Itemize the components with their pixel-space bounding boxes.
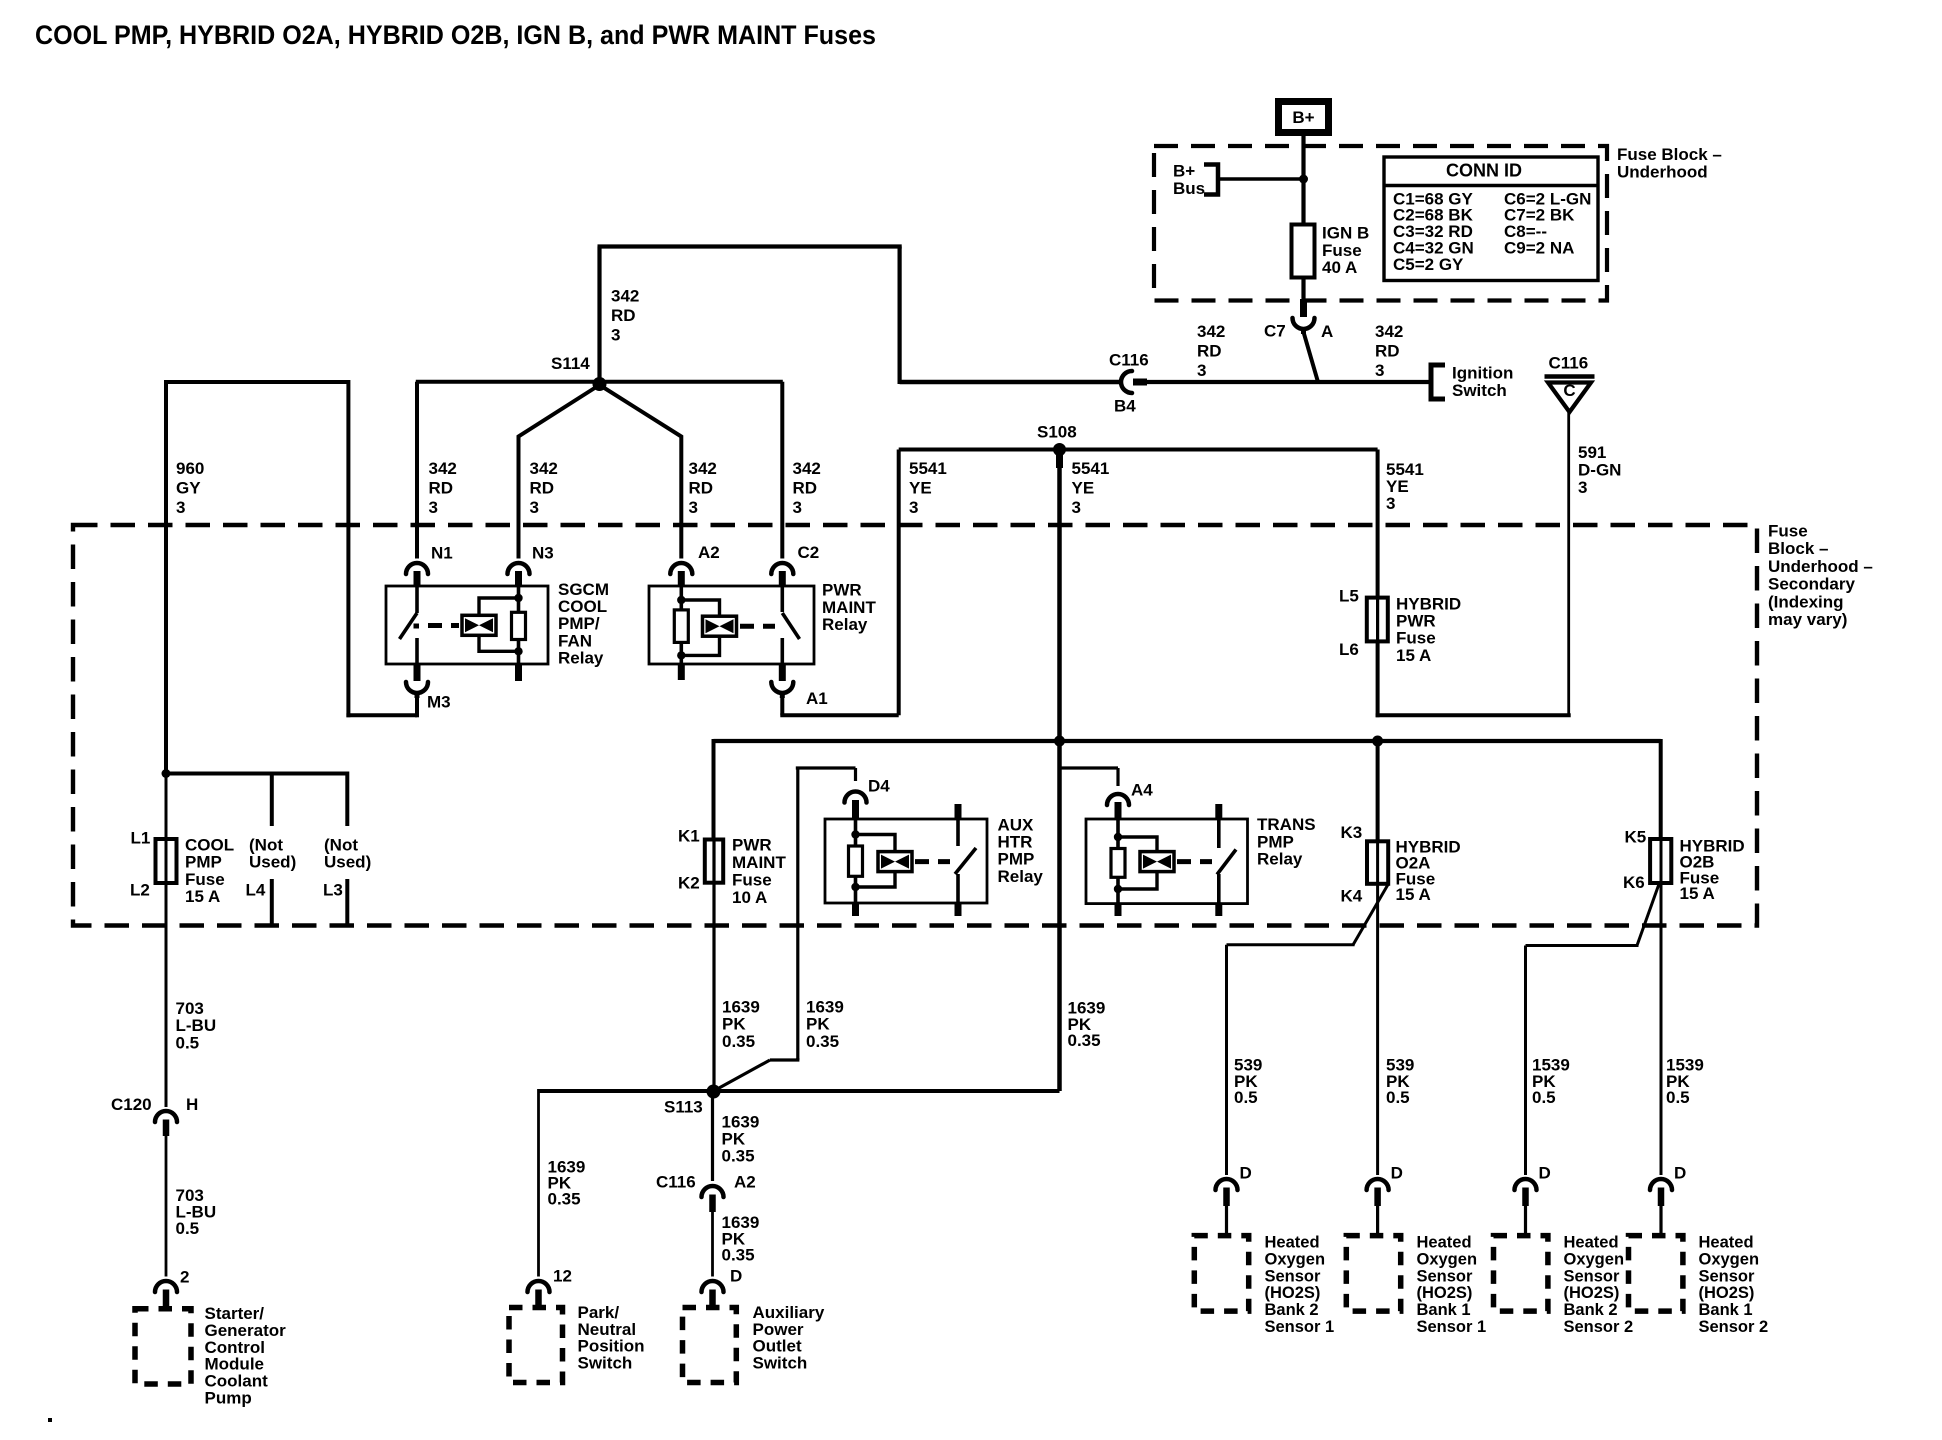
svg-text:PWR: PWR [822,581,862,600]
svg-text:Ignition: Ignition [1452,364,1513,383]
fuse IGN B (40 A) [1292,225,1315,278]
SGCM coil bracket [479,598,519,615]
TRANS stub below coil [1115,904,1122,916]
svg-text:3: 3 [1386,494,1395,513]
svg-text:C116: C116 [1549,354,1589,373]
svg-text:PWR: PWR [732,836,772,855]
connector N1 [406,563,428,574]
relay TRANS PMP box [1086,819,1248,904]
svg-text:Underhood: Underhood [1617,163,1708,182]
svg-text:L4: L4 [246,881,266,900]
svg-text:B+: B+ [1173,162,1195,181]
PWR MAINT coil [703,616,737,636]
ignition switch terminal bracket [1431,365,1445,399]
svg-text:0.35: 0.35 [806,1032,839,1051]
svg-text:K6: K6 [1623,873,1645,892]
PWR MAINT stub below coil [678,664,685,680]
wire S114 to A2 [602,387,681,559]
svg-text:Sensor 2: Sensor 2 [1699,1318,1769,1336]
wire K4 to HO2S B1S1 [1376,884,1379,1175]
AUX stub below coil [852,903,859,916]
svg-text:K5: K5 [1625,828,1647,847]
svg-text:D4: D4 [868,777,890,796]
svg-text:Sensor 1: Sensor 1 [1265,1318,1335,1336]
svg-text:0.5: 0.5 [1386,1088,1410,1107]
svg-text:(Not: (Not [324,836,358,855]
wire S113 to C116 A2 [711,1091,714,1181]
svg-text:TRANS: TRANS [1257,815,1316,834]
node AUX coil bottom [851,883,859,891]
wire COOL PMP fuse to C120 [165,883,168,1107]
svg-text:Bus: Bus [1173,179,1205,198]
node B+ bus junction [1299,175,1308,184]
wire not-used L4 stub upper [270,774,274,827]
svg-text:15 A: 15 A [1680,884,1715,903]
svg-text:0.5: 0.5 [1234,1088,1258,1107]
TRANS switch contact [1217,819,1221,848]
wire bus to K5 fuse [1659,739,1663,839]
svg-text:0.5: 0.5 [1532,1088,1556,1107]
connector HO2S D (Bank 1 Sensor 1) [1367,1179,1389,1190]
svg-text:H: H [186,1095,198,1114]
svg-text:3: 3 [1578,478,1587,497]
svg-text:(Not: (Not [249,836,283,855]
svg-text:3: 3 [429,498,438,517]
svg-text:15 A: 15 A [1396,885,1431,904]
TRANS coil [1140,852,1174,872]
connector A1 [779,664,786,681]
svg-text:0.35: 0.35 [548,1190,581,1209]
SGCM mech link dashes [414,624,420,629]
wire 5541 YE to A1 branch [897,450,901,716]
node AUX coil top [851,830,859,838]
svg-text:342: 342 [1375,322,1403,341]
svg-text:0.35: 0.35 [722,1032,755,1051]
connector C116 pin B4 [900,380,1120,385]
node TRANS coil top [1114,833,1122,841]
svg-text:Sensor: Sensor [1699,1267,1756,1285]
svg-text:342: 342 [793,459,821,478]
splice S113 [707,1085,721,1099]
wire S114 to C116 B4 [597,247,601,385]
connector A4 [1107,794,1129,805]
svg-text:A2: A2 [698,543,720,562]
wire S114 to C2 [780,382,784,559]
AUX coil [878,852,912,872]
connector pump pin 2 [155,1281,177,1292]
svg-text:5541: 5541 [1072,459,1110,478]
wire not-used header [164,772,347,776]
svg-text:CONN ID: CONN ID [1446,161,1522,181]
TRANS stub below switch [1215,904,1222,916]
svg-text:3: 3 [689,498,698,517]
svg-text:3: 3 [909,498,918,517]
wire K6 to HO2S B1S2 [1660,883,1663,1175]
svg-text:PK: PK [722,1015,746,1034]
connector HO2S D (Bank 2 Sensor 1) [1216,1179,1238,1190]
wire fuse feed bus [714,739,1661,743]
svg-text:Fuse: Fuse [1768,522,1808,541]
svg-text:L3: L3 [323,881,343,900]
wire B+ to IGN B fuse [1301,133,1305,225]
B+ bus bracket [1204,165,1218,195]
svg-text:A: A [1321,322,1333,341]
AUX mech link dashes [915,859,950,864]
svg-text:RD: RD [689,479,714,498]
connector outlet pin D [702,1281,724,1292]
node PWR MAINT coil top [677,596,685,604]
svg-text:Switch: Switch [1452,381,1507,400]
svg-text:Relay: Relay [998,867,1044,886]
svg-text:5541: 5541 [909,459,947,478]
svg-text:RD: RD [611,306,636,325]
svg-text:L5: L5 [1339,587,1359,606]
svg-text:COOL: COOL [185,836,234,855]
fuse block underhood dashed box [1154,146,1607,301]
svg-text:Bank 2: Bank 2 [1265,1301,1319,1319]
SGCM coil resistor [517,586,521,612]
SGCM coil [462,615,496,635]
svg-text:342: 342 [429,459,457,478]
connector C116 triangle C [1545,374,1595,379]
AUX coil resistor [854,819,858,846]
AUX switch stub above [955,804,962,820]
svg-text:D: D [1391,1164,1403,1183]
svg-text:Oxygen: Oxygen [1417,1250,1478,1268]
svg-text:Sensor 1: Sensor 1 [1417,1318,1487,1336]
svg-text:10 A: 10 A [732,888,767,907]
svg-text:Heated: Heated [1265,1234,1320,1252]
svg-text:D: D [730,1267,742,1286]
svg-text:B+: B+ [1292,108,1314,127]
svg-text:(HO2S): (HO2S) [1265,1284,1321,1302]
connector C7 pin A [1300,299,1307,317]
TRANS mech link dashes [1177,859,1212,864]
relay PWR MAINT box [649,586,814,664]
relay SGCM COOL PMP/FAN box [386,586,548,664]
fuse PWR MAINT (10 A) [712,841,715,883]
svg-text:12: 12 [553,1267,572,1286]
svg-text:S114: S114 [551,354,590,373]
relay AUX HTR PMP box [825,819,987,903]
svg-text:591: 591 [1578,443,1606,462]
svg-text:L2: L2 [130,881,150,900]
starter generator control module coolant pump box [135,1309,191,1384]
svg-text:0.35: 0.35 [722,1147,755,1166]
svg-text:D: D [1539,1164,1551,1183]
svg-text:PMP: PMP [185,853,222,872]
svg-text:L-BU: L-BU [176,1016,217,1035]
wire not-used L3 stub lower [345,879,349,925]
fuse HYBRID O2A (15 A) [1376,841,1379,884]
TRANS coil bracket [1118,837,1157,851]
svg-text:L1: L1 [131,829,151,848]
wire S113 to park switch [537,1089,540,1277]
connector park pin 12 [528,1281,550,1292]
svg-text:Sensor 2: Sensor 2 [1564,1318,1634,1336]
svg-text:YE: YE [909,479,932,498]
stray mark bottom left [48,1418,52,1422]
svg-text:K1: K1 [678,827,700,846]
svg-text:N3: N3 [532,544,554,563]
SGCM pin stub below N3 [515,664,522,681]
svg-text:S108: S108 [1037,423,1077,442]
connector C120 pin H [155,1111,177,1122]
battery B+ terminal box [1279,102,1329,133]
wire M3 return [346,380,350,717]
svg-text:3: 3 [530,498,539,517]
svg-text:3: 3 [793,498,802,517]
splice S114 [593,377,607,391]
svg-text:A1: A1 [806,689,828,708]
svg-text:Heated: Heated [1564,1234,1619,1252]
svg-text:L6: L6 [1339,640,1359,659]
svg-text:D: D [1674,1164,1686,1183]
svg-text:Used): Used) [324,853,371,872]
svg-text:RD: RD [1197,342,1222,361]
PWR MAINT coil bracket [681,600,719,616]
wire S113 horizontal [538,1089,1060,1093]
svg-text:703: 703 [176,999,204,1018]
svg-text:342: 342 [530,459,558,478]
wire K4 slant branch [1353,885,1388,945]
svg-text:C2: C2 [798,543,820,562]
heated oxygen sensor box (Bank 1 Sensor 1) [1346,1236,1400,1312]
wire S114 horizontal [416,380,783,384]
wire not-used L3 stub upper [345,772,349,827]
svg-text:C120: C120 [111,1095,152,1114]
heated oxygen sensor box (Bank 2 Sensor 2) [1494,1236,1548,1312]
svg-text:342: 342 [611,287,639,306]
svg-text:Relay: Relay [822,615,868,634]
fuse HYBRID PWR (15 A) [1376,598,1379,641]
svg-text:(HO2S): (HO2S) [1699,1284,1755,1302]
svg-text:2: 2 [180,1268,189,1287]
wire not-used L4 stub lower [270,879,274,925]
svg-text:PMP: PMP [1257,832,1294,851]
svg-text:C116: C116 [1109,351,1149,370]
svg-text:3: 3 [1375,361,1384,380]
wire 5541 YE to HYBRID PWR fuse [1376,450,1380,598]
heated oxygen sensor box (Bank 1 Sensor 2) [1629,1236,1683,1312]
CONN ID table box [1384,157,1598,281]
connector HO2S D (Bank 1 Sensor 2) [1650,1179,1672,1190]
svg-text:Sensor: Sensor [1265,1267,1322,1285]
heated oxygen sensor box (Bank 2 Sensor 1) [1194,1236,1248,1312]
svg-text:YE: YE [1072,479,1095,498]
svg-text:Fuse: Fuse [1322,241,1362,260]
svg-text:C116: C116 [656,1173,696,1192]
svg-text:Bank 2: Bank 2 [1564,1301,1618,1319]
wire S114 to N3 [519,387,598,559]
wire IGN B fuse to C7 [1301,278,1305,303]
svg-text:3: 3 [1072,498,1081,517]
connector C2 [771,563,793,574]
svg-text:40 A: 40 A [1322,258,1357,277]
svg-text:C7: C7 [1264,322,1286,341]
svg-text:S113: S113 [664,1098,703,1117]
svg-text:0.35: 0.35 [1068,1031,1101,1050]
wire D4 feed [796,768,799,1060]
svg-text:1639: 1639 [806,998,844,1017]
svg-text:K3: K3 [1341,823,1363,842]
wire K6 slant branch [1637,884,1659,946]
svg-text:Sensor: Sensor [1564,1267,1621,1285]
node PWR MAINT coil bottom [677,651,685,659]
wire 591 D-GN [1567,411,1570,717]
AUX stub below switch [955,903,962,916]
wire PWR MAINT fuse to S113 [712,883,715,1091]
auxiliary power outlet switch box [683,1308,737,1383]
fuse block underhood secondary dashed box [73,525,1757,926]
svg-text:Switch: Switch [578,1353,633,1372]
svg-text:may vary): may vary) [1768,610,1847,629]
node bus S108 junction [1054,736,1065,747]
svg-text:Used): Used) [249,853,296,872]
svg-text:IGN B: IGN B [1322,224,1369,243]
svg-text:Bank 1: Bank 1 [1699,1301,1753,1319]
wire S108 feed down [1057,450,1062,1092]
svg-text:Heated: Heated [1699,1234,1754,1252]
svg-text:RD: RD [793,479,818,498]
svg-text:RD: RD [1375,342,1400,361]
wire 960 GY [166,380,348,384]
svg-text:1639: 1639 [722,998,760,1017]
node COOL PMP junction [162,769,171,778]
svg-text:Oxygen: Oxygen [1265,1250,1326,1268]
svg-text:Oxygen: Oxygen [1564,1250,1625,1268]
svg-text:C5=2 GY: C5=2 GY [1393,255,1464,274]
PWR MAINT switch contact [780,586,784,612]
svg-text:Sensor: Sensor [1417,1267,1474,1285]
TRANS coil resistor [1116,819,1120,849]
svg-text:(Indexing: (Indexing [1768,592,1844,611]
wire C116 A2 to outlet [711,1212,714,1277]
svg-text:15 A: 15 A [1396,646,1431,665]
svg-text:0.5: 0.5 [1666,1088,1690,1107]
svg-text:D: D [1240,1164,1252,1183]
svg-text:Underhood –: Underhood – [1768,557,1873,576]
svg-text:D-GN: D-GN [1578,460,1621,479]
connector C116 pin A2 [702,1186,724,1197]
svg-text:0.5: 0.5 [176,1219,200,1238]
svg-text:MAINT: MAINT [732,853,786,872]
node SGCM coil top [514,594,522,602]
svg-text:C9=2 NA: C9=2 NA [1504,239,1574,258]
svg-text:A2: A2 [734,1173,756,1192]
svg-text:Block –: Block – [1768,539,1828,558]
svg-text:PK: PK [806,1015,830,1034]
svg-text:(HO2S): (HO2S) [1564,1284,1620,1302]
svg-text:3: 3 [1197,361,1206,380]
wire C120 to pump module [165,1136,168,1277]
node SGCM coil bottom [514,647,522,655]
svg-text:B4: B4 [1114,397,1136,416]
svg-text:M3: M3 [427,693,451,712]
park neutral position switch box [509,1308,563,1383]
SGCM switch contact [415,586,419,613]
svg-text:K2: K2 [678,874,700,893]
AUX switch contact [956,819,960,846]
wire A4 feed [1060,766,1119,769]
splice S108 [1053,443,1066,456]
svg-text:COOL PMP, HYBRID O2A, HYBRID O: COOL PMP, HYBRID O2A, HYBRID O2B, IGN B,… [35,20,876,50]
node bus K3 junction [1372,736,1383,747]
wire S108 horizontal [899,448,1378,452]
svg-text:Bank 1: Bank 1 [1417,1301,1471,1319]
svg-text:Oxygen: Oxygen [1699,1250,1760,1268]
wire S114 to N1 [415,382,419,559]
wire C7 switch slant [1304,332,1319,382]
svg-text:Secondary: Secondary [1768,575,1855,594]
svg-text:Fuse: Fuse [732,871,772,890]
svg-text:342: 342 [689,459,717,478]
svg-text:Pump: Pump [205,1389,252,1408]
connector HO2S D (Bank 2 Sensor 2) [1515,1179,1537,1190]
svg-text:(HO2S): (HO2S) [1417,1284,1473,1302]
connector N3 [508,563,530,574]
wire A1 to 5541 feed [780,694,784,715]
connector M3 [414,664,421,681]
svg-text:C: C [1563,381,1575,400]
svg-text:3: 3 [176,498,185,517]
fuse COOL PMP (15 A) [165,775,168,885]
svg-text:0.5: 0.5 [176,1033,200,1052]
svg-text:MAINT: MAINT [822,598,876,617]
svg-text:960: 960 [176,459,204,478]
svg-text:RD: RD [429,479,454,498]
svg-text:Relay: Relay [558,648,604,667]
svg-text:K4: K4 [1341,887,1363,906]
fuse HYBRID O2B (15 A) [1660,839,1663,883]
svg-text:GY: GY [176,479,201,498]
svg-text:A4: A4 [1131,781,1153,800]
svg-text:Fuse Block –: Fuse Block – [1617,145,1722,164]
svg-text:342: 342 [1197,322,1225,341]
AUX coil bracket [856,835,896,852]
wire 342 RD to ignition switch [1146,380,1429,384]
connector D4 [845,792,867,803]
svg-text:N1: N1 [431,544,453,563]
wire bus to K3 fuse [1376,741,1380,841]
svg-text:Relay: Relay [1257,850,1303,869]
svg-text:Switch: Switch [753,1353,808,1372]
svg-text:15 A: 15 A [185,887,220,906]
node TRANS coil bottom [1114,885,1122,893]
connector A2 [670,563,692,574]
wire HYBRID PWR fuse to 591 [1376,641,1380,717]
svg-text:0.35: 0.35 [722,1246,755,1265]
wire D4 slant to S113 [796,1058,799,1060]
PWR MAINT coil resistor [679,586,683,610]
PWR MAINT mech link dashes [740,624,775,629]
svg-text:Fuse: Fuse [185,870,225,889]
wire B+ bus to junction [1218,177,1304,181]
TRANS switch stub above [1215,804,1222,820]
svg-text:Heated: Heated [1417,1234,1472,1252]
svg-text:3: 3 [611,326,620,345]
svg-text:RD: RD [530,479,555,498]
